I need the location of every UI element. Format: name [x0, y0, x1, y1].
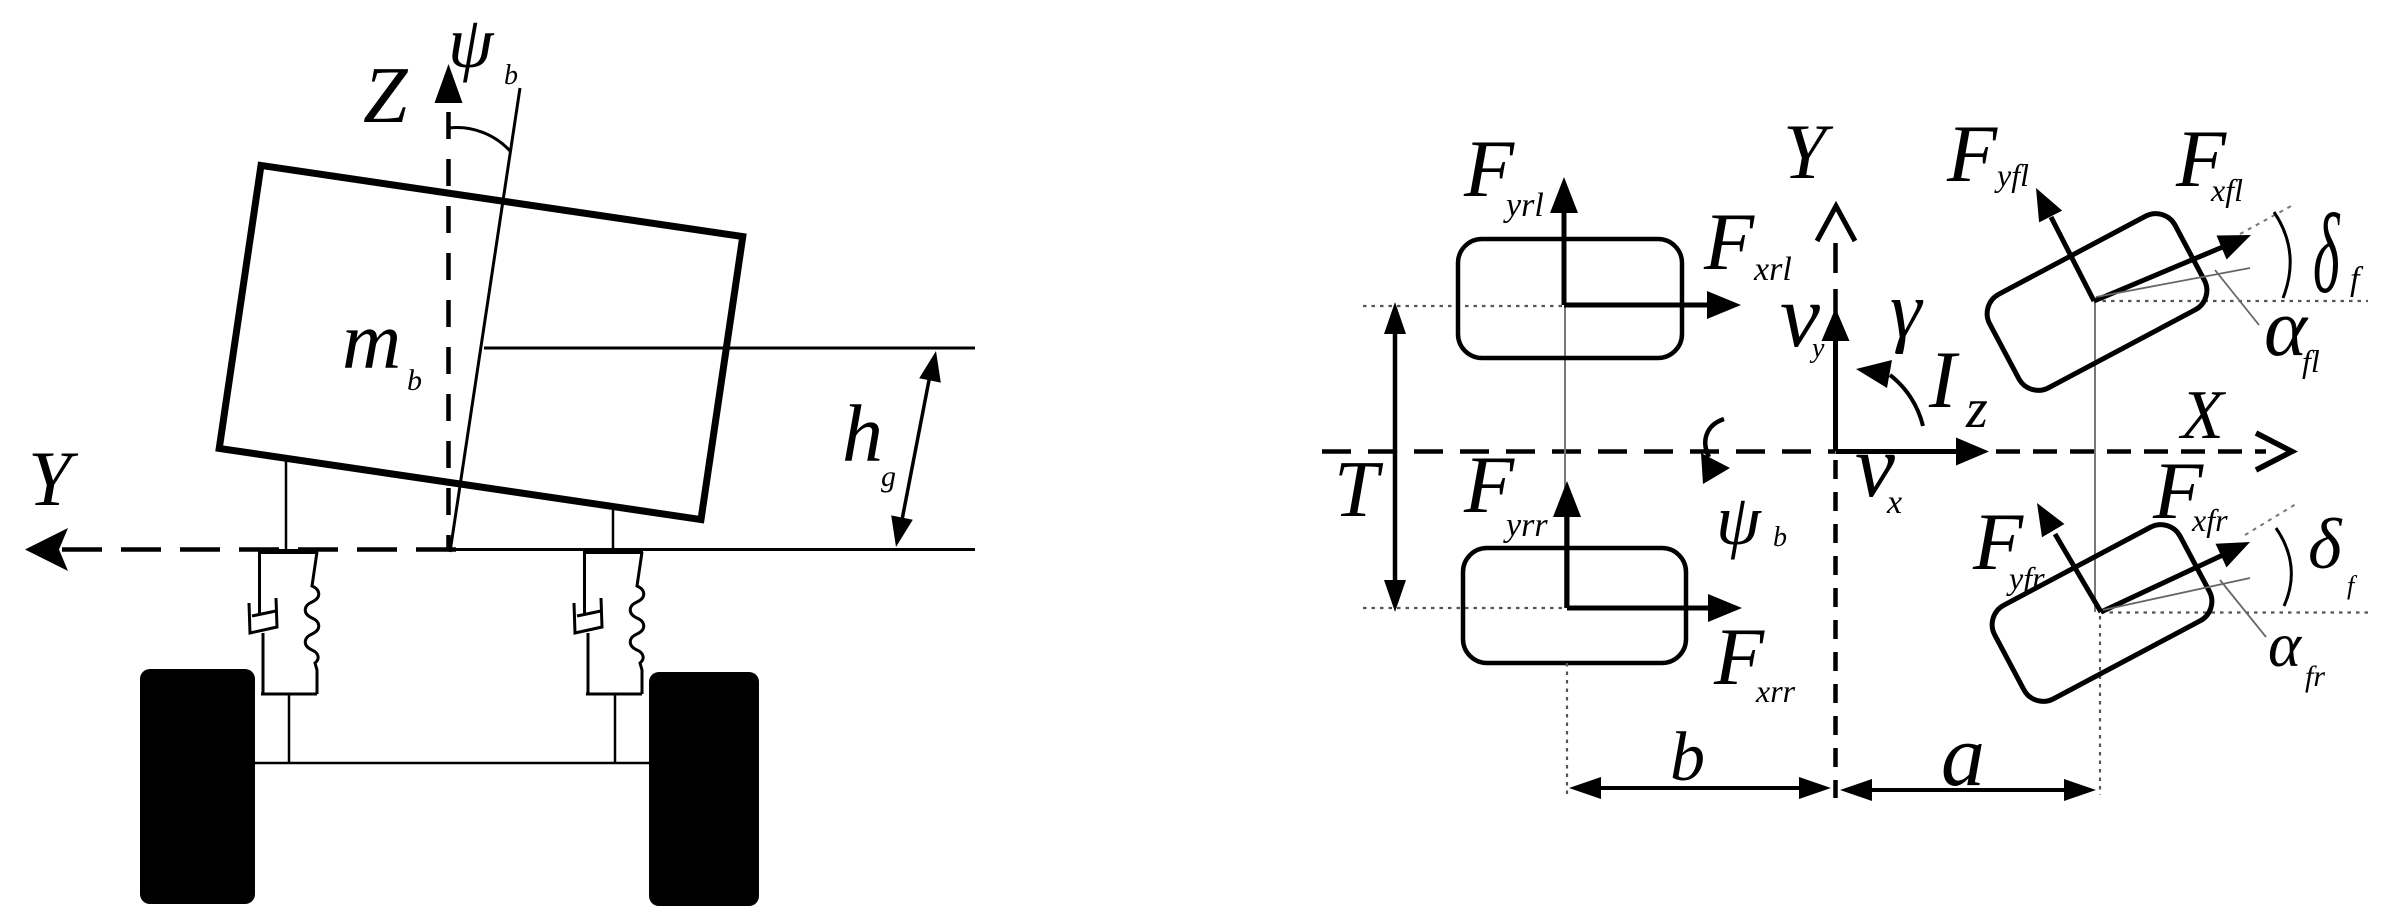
axle line — [255, 762, 649, 765]
Y axis dashed line — [62, 547, 460, 552]
rear axle dotted drop line — [1566, 663, 1568, 795]
svg-text:b: b — [504, 60, 518, 91]
right suspension strut — [574, 506, 644, 763]
svg-text:δ: δ — [2313, 192, 2341, 317]
svg-text:Z: Z — [363, 52, 409, 140]
front-right wheel — [1984, 517, 2219, 709]
svg-text:yfl: yfl — [1994, 157, 2029, 193]
Y axis arrowhead chevron — [1817, 206, 1855, 241]
body mass rect — [219, 165, 743, 519]
FR wheel plane dotted extension — [2245, 504, 2296, 535]
ground line — [448, 548, 975, 551]
svg-text:Y: Y — [1783, 108, 1834, 195]
X axis dashed line left segment — [1322, 449, 1835, 454]
svg-text:f: f — [2350, 261, 2364, 298]
Y axis dashed line lower segment — [1833, 460, 1838, 798]
svg-text:g: g — [881, 460, 896, 493]
Z axis arrowhead — [435, 64, 463, 103]
lower track dotted line — [1363, 607, 1565, 609]
svg-text:fl: fl — [2302, 343, 2320, 379]
F_xfl force arrow — [2094, 246, 2225, 301]
F_yfl force arrow — [2051, 217, 2094, 301]
LEFT FIGURE : vehicle roll model (rear view) — [25, 2, 975, 906]
FL wheel plane dotted extension — [2240, 205, 2293, 234]
svg-text:y: y — [1809, 333, 1825, 364]
svg-text:γ: γ — [1890, 267, 1924, 355]
svg-text:z: z — [1965, 378, 1988, 440]
svg-text:xfl: xfl — [2210, 172, 2243, 208]
svg-text:fr: fr — [2305, 660, 2325, 693]
CG height line — [484, 347, 975, 350]
F_yfr force arrow — [2055, 534, 2101, 612]
upper track dotted line — [1363, 305, 1562, 307]
svg-text:α: α — [2268, 610, 2303, 680]
rear-left wheel — [1458, 239, 1682, 358]
svg-text:ψ: ψ — [1716, 480, 1762, 560]
svg-text:a: a — [1941, 708, 1985, 805]
left suspension strut — [249, 456, 319, 763]
svg-text:yrl: yrl — [1503, 187, 1544, 224]
FL alpha leader line — [2215, 270, 2259, 325]
v_y velocity arrow — [1833, 340, 1838, 451]
X axis arrowhead chevron — [2256, 433, 2292, 470]
svg-text:xfr: xfr — [2191, 502, 2228, 538]
svg-text:h: h — [842, 388, 883, 479]
svg-text:xrr: xrr — [1755, 673, 1796, 709]
body roll axis line — [450, 88, 520, 552]
front axle dotted drop line — [2099, 616, 2101, 795]
Z axis dashed line — [446, 112, 451, 551]
svg-text:b: b — [407, 364, 422, 397]
RIGHT FIGURE : planar vehicle model (top view) — [1322, 108, 2368, 805]
svg-text:F: F — [1703, 196, 1755, 287]
FR alpha leader line — [2220, 580, 2266, 637]
svg-text:T: T — [1334, 446, 1384, 534]
a dimension arrow — [1869, 788, 2067, 792]
FR slip angle reference line — [2103, 578, 2250, 610]
left wheel — [140, 669, 255, 904]
svg-text:F: F — [1946, 108, 1998, 199]
v_x velocity arrow — [1836, 449, 1963, 454]
front axle center line — [2094, 301, 2096, 612]
FR wheel center dotted line — [2101, 611, 2368, 613]
svg-text:xrl: xrl — [1753, 251, 1792, 288]
rear axle center line — [1564, 305, 1566, 608]
svg-text:δ: δ — [2308, 504, 2343, 584]
svg-text:I: I — [1928, 334, 1960, 425]
Y axis dashed line upper segment — [1833, 243, 1838, 318]
svg-text:yfr: yfr — [2006, 560, 2045, 596]
Y axis arrowhead — [25, 528, 68, 571]
b dimension arrow — [1598, 786, 1802, 790]
F_yrr force arrow — [1565, 515, 1570, 608]
svg-text:b: b — [1670, 719, 1705, 796]
svg-text:m: m — [342, 295, 401, 386]
FL steering angle arc — [2274, 212, 2290, 298]
F_xfr force arrow — [2101, 554, 2225, 612]
FL wheel center dotted line — [2094, 300, 2368, 302]
FL slip angle reference line — [2096, 268, 2250, 297]
T dimension arrow — [1393, 318, 1398, 592]
yaw rate gamma arc arrow — [1890, 375, 1923, 426]
svg-text:f: f — [2347, 571, 2358, 600]
roll angle arc — [449, 128, 511, 152]
h_g dimension arrow — [901, 375, 930, 525]
FR steering angle arc — [2276, 528, 2291, 606]
front-left wheel — [1979, 206, 2214, 398]
svg-text:ψ: ψ — [448, 2, 495, 83]
psi_b yaw rotation arrow — [1705, 419, 1724, 457]
svg-text:x: x — [1886, 484, 1902, 521]
F_xrr force arrow — [1567, 606, 1711, 611]
svg-text:Y: Y — [28, 435, 79, 522]
F_yrl force arrow — [1562, 212, 1567, 305]
right wheel — [649, 672, 759, 906]
svg-text:yrr: yrr — [1503, 507, 1548, 544]
rear-right wheel — [1463, 548, 1686, 663]
svg-text:X: X — [2178, 377, 2227, 454]
X axis dashed line right segment — [1996, 449, 2266, 454]
F_xrl force arrow — [1564, 303, 1710, 308]
svg-text:b: b — [1773, 522, 1787, 553]
